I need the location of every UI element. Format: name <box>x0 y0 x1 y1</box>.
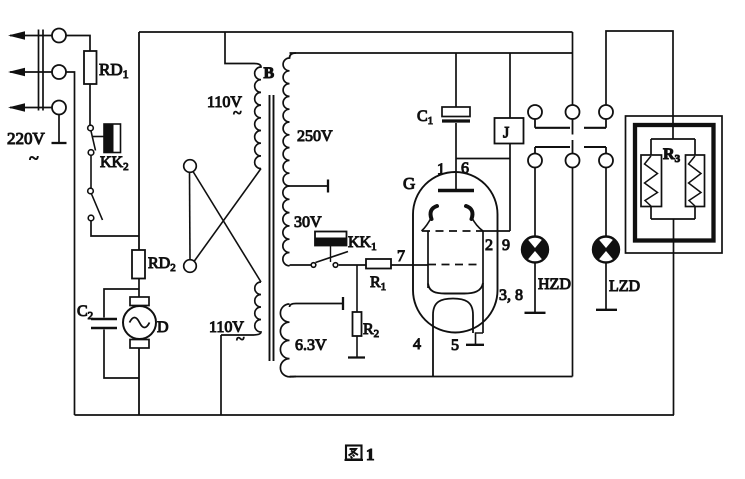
top border wire <box>139 31 573 33</box>
svg-text:~: ~ <box>236 331 245 348</box>
lamp LZD <box>593 237 619 263</box>
wire J to grid 9 <box>509 144 511 232</box>
svg-text:2: 2 <box>485 237 493 254</box>
transformer core <box>269 95 271 361</box>
relay contact feed middle <box>572 32 574 105</box>
switch KK2 <box>88 124 121 221</box>
left column wire (top border down) <box>138 32 140 250</box>
svg-text:R3: R3 <box>663 146 681 165</box>
plug double line <box>39 30 44 111</box>
fuse RD1 <box>84 51 97 84</box>
svg-text:D: D <box>157 319 169 336</box>
svg-text:C2: C2 <box>77 303 93 322</box>
wire R1 to tube grid 7 <box>391 264 428 266</box>
svg-text:KK1: KK1 <box>348 234 377 253</box>
relay contact feed right loop <box>606 31 673 139</box>
cathode <box>428 283 483 294</box>
fuse RD2 <box>132 250 145 279</box>
wire contacts to HZD <box>534 168 536 237</box>
wire middle contact to rail A <box>572 168 574 377</box>
svg-text:RD2: RD2 <box>148 255 176 274</box>
svg-text:G: G <box>403 174 415 193</box>
R2 ground tick <box>356 336 358 357</box>
heater filament <box>433 299 473 377</box>
terminal tick below bottom input <box>58 115 60 143</box>
tube G envelope <box>413 172 498 333</box>
cathode-heater jog and tick pin 5 <box>476 333 484 345</box>
secondary 6.3V tap tick <box>290 304 344 308</box>
voltage selector circles and link <box>184 160 197 173</box>
wire RD1 to KK2 <box>89 84 91 125</box>
220V mains input arrows <box>10 36 52 108</box>
main top wire rail <box>290 52 573 54</box>
svg-text:6: 6 <box>461 160 469 177</box>
svg-text:KK2: KK2 <box>100 154 129 173</box>
junction wire down to R2 <box>356 265 358 312</box>
selector diagonal wires <box>193 172 261 283</box>
svg-text:C1: C1 <box>417 108 433 127</box>
svg-text:5: 5 <box>451 337 459 354</box>
svg-text:6.3V: 6.3V <box>295 337 327 354</box>
svg-text:R2: R2 <box>363 321 379 340</box>
relay contact bars upper <box>534 119 536 128</box>
capacitor C1 <box>442 107 470 117</box>
svg-text:4: 4 <box>413 336 421 353</box>
heater enclosure inner box <box>635 125 714 241</box>
caption fig 1 glyph <box>345 446 364 460</box>
heater rail A <box>290 376 573 378</box>
svg-text:~: ~ <box>29 148 39 168</box>
svg-text:7: 7 <box>397 248 405 265</box>
internal left wall <box>427 231 429 288</box>
R3 element right <box>686 155 705 207</box>
capacitor C2 branch <box>104 289 139 318</box>
transformer primary upper 110V winding <box>254 64 261 169</box>
transformer primary lower 110V winding <box>221 282 261 335</box>
svg-text:R1: R1 <box>370 274 386 293</box>
heater enclosure R3 outer box <box>626 116 723 253</box>
svg-text:9: 9 <box>502 237 510 254</box>
relay contact circles top row <box>528 105 613 119</box>
svg-text:HZD: HZD <box>538 276 571 293</box>
shield grid pins 2,9 dashed <box>422 230 483 232</box>
R3 element left <box>641 155 662 207</box>
250V/30V tap tick <box>290 185 329 187</box>
R3 feed tee <box>651 138 695 140</box>
lamp HZD <box>522 237 548 263</box>
transformer B primary feed drop <box>225 32 254 64</box>
R3 return wire to bottom rail <box>673 219 675 415</box>
secondary 250V winding <box>283 53 296 186</box>
wire C1 to anode junction <box>455 123 457 190</box>
svg-text:30V: 30V <box>294 214 322 231</box>
anode bar pins 1,6 <box>438 189 474 192</box>
arrowheads for 220V feed <box>8 31 25 112</box>
resistor R2 <box>353 312 362 336</box>
svg-text:1: 1 <box>437 161 445 178</box>
ignitor flag left <box>431 206 437 219</box>
R3 bottom tee <box>650 207 652 220</box>
svg-text:~: ~ <box>233 105 242 122</box>
motor D <box>130 297 149 306</box>
wire top terminal to RD1 <box>66 36 90 52</box>
secondary 30V winding <box>283 186 290 266</box>
svg-text:B: B <box>264 65 275 82</box>
svg-text:J: J <box>503 125 509 142</box>
ignitor flag right <box>466 206 472 219</box>
wire RD2 to motor <box>138 279 140 298</box>
secondary 6.3V winding <box>280 304 296 377</box>
relay contact bars lower <box>572 140 574 154</box>
input terminal circles <box>52 29 66 115</box>
wire motor to bottom rail <box>138 348 140 415</box>
wire contacts to LZD <box>605 168 607 237</box>
cathode lead pins 3,8 <box>482 231 484 333</box>
switch KK1 <box>290 264 312 266</box>
control grid pin 7 dashed <box>428 264 481 266</box>
wire middle terminal to bottom rail <box>66 72 75 415</box>
svg-text:220V: 220V <box>7 129 46 148</box>
wire KK1 to R1 <box>339 264 366 266</box>
svg-text:RD1: RD1 <box>99 60 129 81</box>
svg-text:1: 1 <box>366 445 375 464</box>
anode junction horizontal <box>456 158 510 160</box>
resistor R1 <box>366 259 391 269</box>
relay contact circles bottom row <box>528 154 613 168</box>
relay J coil <box>509 53 511 118</box>
capacitor C1 lead from top rail <box>455 53 457 107</box>
svg-text:3, 8: 3, 8 <box>499 287 523 304</box>
svg-text:250V: 250V <box>297 128 333 145</box>
wire KK2 to left column <box>91 221 139 236</box>
bottom rail B <box>75 414 675 416</box>
svg-text:LZD: LZD <box>609 278 640 295</box>
